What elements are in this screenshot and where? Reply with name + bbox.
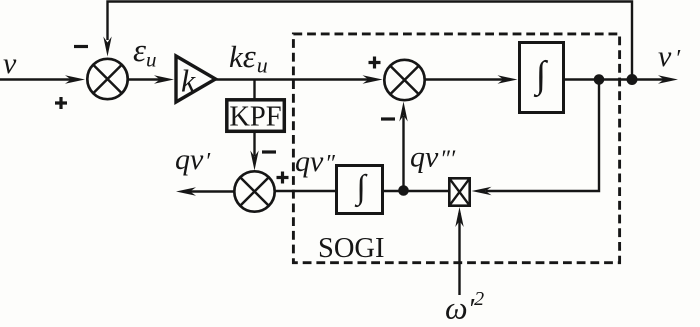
svg-text:v: v xyxy=(3,47,17,80)
wire: gain k output to S2 xyxy=(216,78,371,80)
node dot qv''' xyxy=(398,185,409,196)
gain block k (triangle) xyxy=(176,56,216,102)
svg-text:qv″′: qv″′ xyxy=(410,141,456,174)
wire: node qv''' to multiplier left side xyxy=(404,190,449,192)
wire: node A down and left into multiplier xyxy=(486,80,599,192)
wire: S1 to gain k xyxy=(128,78,161,80)
wire: node qv''' up to S2 bottom xyxy=(402,116,404,191)
wire: S3 output to qv' (left arrow) xyxy=(190,190,234,192)
wire: feedback from node v' to S1 top xyxy=(108,2,633,81)
node dot B at v' xyxy=(627,74,638,85)
svg-text:k: k xyxy=(181,63,196,99)
multiplier block (x in square) xyxy=(449,178,469,205)
wire: input v into S1 xyxy=(0,78,72,80)
summing junction S3 xyxy=(234,171,274,211)
integrator I1 block xyxy=(520,43,564,113)
svg-text:kεu: kεu xyxy=(229,39,268,78)
KPF block xyxy=(227,100,284,132)
svg-text:ω′2: ω′2 xyxy=(445,288,484,326)
plus sign at S3 right input xyxy=(277,172,289,184)
svg-text:KPF: KPF xyxy=(229,102,281,133)
svg-text:SOGI: SOGI xyxy=(318,233,385,264)
svg-text:εu: εu xyxy=(133,33,157,72)
wire: node qv''' to integrator I2 xyxy=(383,190,400,192)
summing junction S1 xyxy=(87,59,127,99)
minus sign at S1 top input xyxy=(74,45,88,48)
svg-text:qv′: qv′ xyxy=(175,143,211,176)
node dot A xyxy=(594,74,605,85)
wire: integrator I2 output to S3 xyxy=(274,190,336,192)
summing junction S2 xyxy=(384,60,424,100)
plus sign at S1 left input xyxy=(55,97,67,109)
svg-text:v′: v′ xyxy=(658,40,681,73)
svg-text:qv″: qv″ xyxy=(295,145,336,178)
SOGI dashed boundary box xyxy=(293,34,619,263)
wire: omega'^2 up into multiplier bottom xyxy=(458,213,460,295)
minus sign at S3 top input xyxy=(262,150,276,153)
minus sign at S2 bottom input xyxy=(381,117,395,120)
wire: I1 output to v' output arrow xyxy=(564,78,666,80)
wire: KPF output down to S3 xyxy=(253,133,255,156)
plus sign at S2 left input xyxy=(369,57,381,69)
wire: tap from k output down to KPF xyxy=(253,80,255,100)
integrator I2 block xyxy=(337,166,383,214)
wire: S2 output to integrator I1 xyxy=(425,78,506,80)
